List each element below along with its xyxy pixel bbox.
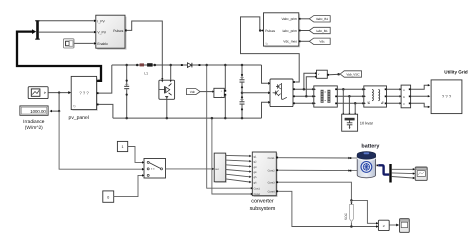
wire: DC- tap down to converter subsystem Con2 (212, 118, 253, 195)
node: C1 top on rail (125, 64, 128, 67)
wire: branch to display (50, 93, 60, 113)
wire: Com4 down and along bottom to comparator input 2 (278, 191, 378, 227)
node: cap bank tap C (354, 102, 357, 105)
wire: inverter phase C to transformer (295, 102, 314, 104)
wire: VI measurement to utility grid phase C (411, 103, 431, 108)
three-phase transformer T1 (314, 86, 338, 107)
wire: inverter phase B to transformer (295, 95, 314, 97)
svg-text:≥: ≥ (383, 224, 385, 228)
svg-text:out: out (215, 168, 219, 171)
wire: DC top rail (112, 64, 262, 66)
node: VM1 on top rail (224, 64, 227, 67)
node: cap bank tap A (342, 88, 345, 91)
wire: constant K2 to switch input 3 (114, 174, 145, 196)
node: IGBT collector on rail (169, 64, 172, 67)
svg-text:Pulses: Pulses (113, 29, 123, 33)
svg-text:Vdc: Vdc (190, 90, 196, 94)
wire: inverter phase A to transformer (295, 88, 314, 90)
wire: Iabc_prim to goto tag (301, 30, 310, 32)
svg-text:Vab_VSC: Vab_VSC (346, 72, 360, 76)
wire: VI measurement to utility grid phase B (411, 95, 431, 97)
goto tag Iabc_B1 (309, 27, 330, 33)
goto tag SOC (rotated) (344, 200, 354, 226)
svg-text:Con2: Con2 (254, 193, 261, 196)
converter subsystem block (252, 152, 278, 197)
three-phase series RL branch (364, 86, 387, 107)
node: DC link midpoint (241, 92, 244, 95)
svg-text:Iabc_prim: Iabc_prim (283, 29, 298, 33)
wire: Pulses from MPPT to boost IGBT gate (127, 21, 164, 80)
capacitor C2 (DC link upper) (240, 65, 245, 93)
voltage measurement VM1 (DC link) (214, 88, 226, 98)
wire: Vabc_prim to goto tag (301, 18, 310, 20)
svg-text:converter: converter (251, 198, 274, 204)
svg-text:? ? ?: ? ? ? (79, 91, 89, 96)
svg-text:I_PV: I_PV (97, 19, 105, 23)
node: C3 bottom on rail (241, 117, 244, 120)
capacitor C1 (input capacitor) (124, 65, 129, 118)
svg-text:↻: ↻ (73, 105, 76, 109)
wire: pv_panel - output down to DC bottom rail (99, 104, 113, 118)
wire: phase A tap up to Vab measurement (304, 72, 317, 89)
goto tag Vabc_B1 (309, 16, 330, 22)
boost IGBT Q1 (159, 80, 175, 99)
wire: irradiance signal to pv_panel input (48, 91, 71, 94)
node: VM1 on bottom rail (224, 117, 227, 120)
svg-text:10 kvar: 10 kvar (360, 120, 374, 125)
node: C1 bottom on rail (125, 117, 128, 120)
node: irradiance branch junction (58, 91, 60, 93)
svg-text:Com1: Com1 (268, 157, 275, 160)
svg-text:pv_panel: pv_panel (69, 115, 89, 121)
svg-text:B: B (403, 95, 405, 99)
node: IGBT emitter on bottom rail (166, 117, 169, 120)
bus selector B1 (vertical black bar) (35, 20, 40, 39)
svg-text:C: C (403, 102, 405, 106)
svg-text:Enable: Enable (97, 42, 108, 46)
three-phase V-I measurement B1 (401, 85, 411, 108)
battery block (350, 152, 378, 178)
node: dot before Vab_VSC tag (337, 73, 340, 76)
switch SW1 (144, 159, 166, 179)
svg-text:1000.00: 1000.00 (30, 109, 46, 114)
wire: From tag to voltage measurement block (200, 90, 214, 92)
svg-text:L1: L1 (144, 72, 148, 76)
svg-text:Vdc: Vdc (319, 40, 325, 44)
utility grid subsystem (431, 80, 462, 114)
wire: DC midpoint to inverter N port (242, 92, 271, 95)
wire: Enable signal from manual switch to MPPT (74, 42, 94, 44)
wire: rail to IGBT collector (170, 65, 172, 80)
wire: transformer B to RL branch (337, 95, 364, 97)
goto tag Vdc (309, 38, 330, 44)
wire: VM2 output to goto tag Vab_VSC (329, 73, 340, 76)
capacitor C3 (DC link lower) (240, 93, 245, 118)
svg-text:Utility Grid: Utility Grid (444, 69, 468, 74)
constant K1 (117, 141, 127, 151)
wire: Com3 down and over to comparator input 1 (278, 182, 378, 224)
comparator block (SOC logic) (376, 220, 389, 230)
svg-text:Pulses: Pulses (265, 29, 275, 33)
wire: Com1 to battery + (278, 157, 350, 159)
svg-text:A: A (403, 88, 405, 92)
svg-text:0: 0 (107, 195, 109, 199)
wire: gate loop from measurement subsystem Pulses to inverter (241, 17, 300, 82)
wires: demux 6 pulse outputs to converter subsystem (226, 155, 252, 183)
wire: transformer A to RL branch (337, 88, 364, 90)
svg-text:battery: battery (361, 144, 379, 150)
wire: tap B down to capacitor bank (348, 96, 350, 113)
wire: RL to VI measurement (A,B,C) (387, 88, 402, 104)
node: pulses wire dot at subsystem input (259, 29, 262, 32)
wire: I_PV signal from bus selector to MPPT (39, 20, 94, 22)
svg-text:Con1: Con1 (254, 188, 261, 191)
node: tap A junction (303, 88, 306, 91)
svg-text:Iabc_B1: Iabc_B1 (316, 29, 328, 33)
inductor L1 (series RL branch) (136, 63, 156, 66)
svg-text:Com2: Com2 (268, 169, 275, 172)
constant K2 (103, 191, 114, 202)
wire: top rail elbow to inverter + port (262, 65, 271, 85)
wire: VM1 terminals to rails (224, 65, 226, 118)
wire: bottom rail elbow to inverter - port (262, 101, 271, 118)
goto tag Vab_VSC (340, 71, 361, 77)
demux bar (battery bus) (389, 164, 391, 183)
node: DC+ tap junction on top rail (205, 64, 208, 67)
svg-text:? ? ?: ? ? ? (442, 94, 452, 99)
svg-text:Vabc_B1: Vabc_B1 (316, 17, 329, 21)
node: SOC branch junction (350, 199, 353, 202)
svg-text:-: - (221, 94, 222, 98)
svg-text:(W/m^2): (W/m^2) (25, 125, 43, 131)
label: Irradiance (W/m^2) (23, 119, 45, 131)
wire: Vdc_mes to goto tag (301, 40, 310, 42)
node: DC- tap junction on bottom rail (211, 117, 214, 120)
signal builder (irradiance source) (28, 87, 48, 99)
capacitor bank (10 kvar) (342, 113, 358, 131)
wire: tap A down to capacitor bank (342, 89, 344, 113)
node: C2 top on rail (241, 64, 244, 67)
wire: pv_panel + output up to DC top rail (99, 65, 112, 93)
svg-text:subsystem: subsystem (250, 206, 276, 212)
wire: DC+ tap down to converter subsystem Con1 (207, 65, 254, 189)
wire: comparator output to scope2 (389, 224, 399, 227)
wire: irradiance down to switch input 2 (59, 111, 144, 170)
From tag: Vdc (pentagon) (187, 89, 201, 95)
wire: battery m bus (thick blue) to demux bar (378, 165, 389, 174)
svg-text:Vdc_mes: Vdc_mes (283, 40, 297, 44)
svg-text:Vabc_prim: Vabc_prim (281, 17, 297, 21)
node: cap bank tap B (348, 95, 351, 98)
pulse demux block (214, 153, 227, 183)
wire: VI measurement to utility grid phase A (411, 84, 431, 89)
measurement subsystem (Vabc Iabc Vdc) (262, 13, 300, 48)
diode D1 (181, 63, 201, 68)
svg-text:↻: ↻ (265, 42, 268, 46)
label: converter subsystem (250, 198, 276, 212)
wire: pv_panel measurement bus (thick) into bus selector B1 (17, 29, 101, 81)
svg-text:SOC: SOC (344, 212, 348, 220)
MPPT controller block U1 (94, 15, 127, 50)
scope Scope2 (SOC) (400, 219, 410, 233)
svg-text:V_PV: V_PV (97, 31, 106, 35)
inverter universal bridge U2 (269, 79, 295, 107)
svg-text:1: 1 (122, 145, 124, 149)
wire: IGBT emitter to bottom rail (166, 99, 168, 118)
wire: Com2 to battery - (278, 169, 350, 171)
scope Scope1 (battery) (415, 167, 427, 180)
wire: transformer C to RL branch (337, 102, 364, 104)
svg-text:Com4: Com4 (268, 191, 275, 194)
manual switch SW_EN (63, 39, 74, 48)
node: tap B junction (305, 95, 308, 98)
wire: switch output to demux (166, 168, 215, 170)
wire: constant K1 to switch input 1 (128, 147, 145, 164)
svg-text:Com3: Com3 (268, 181, 275, 184)
display block (Irradiance 1000.00) (20, 106, 48, 115)
wires: demux bar to scope (3 signals) (392, 168, 416, 179)
wire: phase B tap up to Vab measurement (306, 76, 317, 97)
pv_panel subsystem (69, 76, 99, 110)
wire: tap C down to capacitor bank (354, 103, 356, 113)
wire: V_PV signal from bus selector to MPPT (39, 31, 94, 33)
Vab voltage measurement VM2 (317, 70, 330, 78)
node: display branch junction (58, 110, 60, 112)
node: SOC tag foot junction (350, 225, 353, 228)
wire: DC bottom rail (113, 117, 262, 119)
svg-text:Irradiance: Irradiance (23, 119, 45, 125)
